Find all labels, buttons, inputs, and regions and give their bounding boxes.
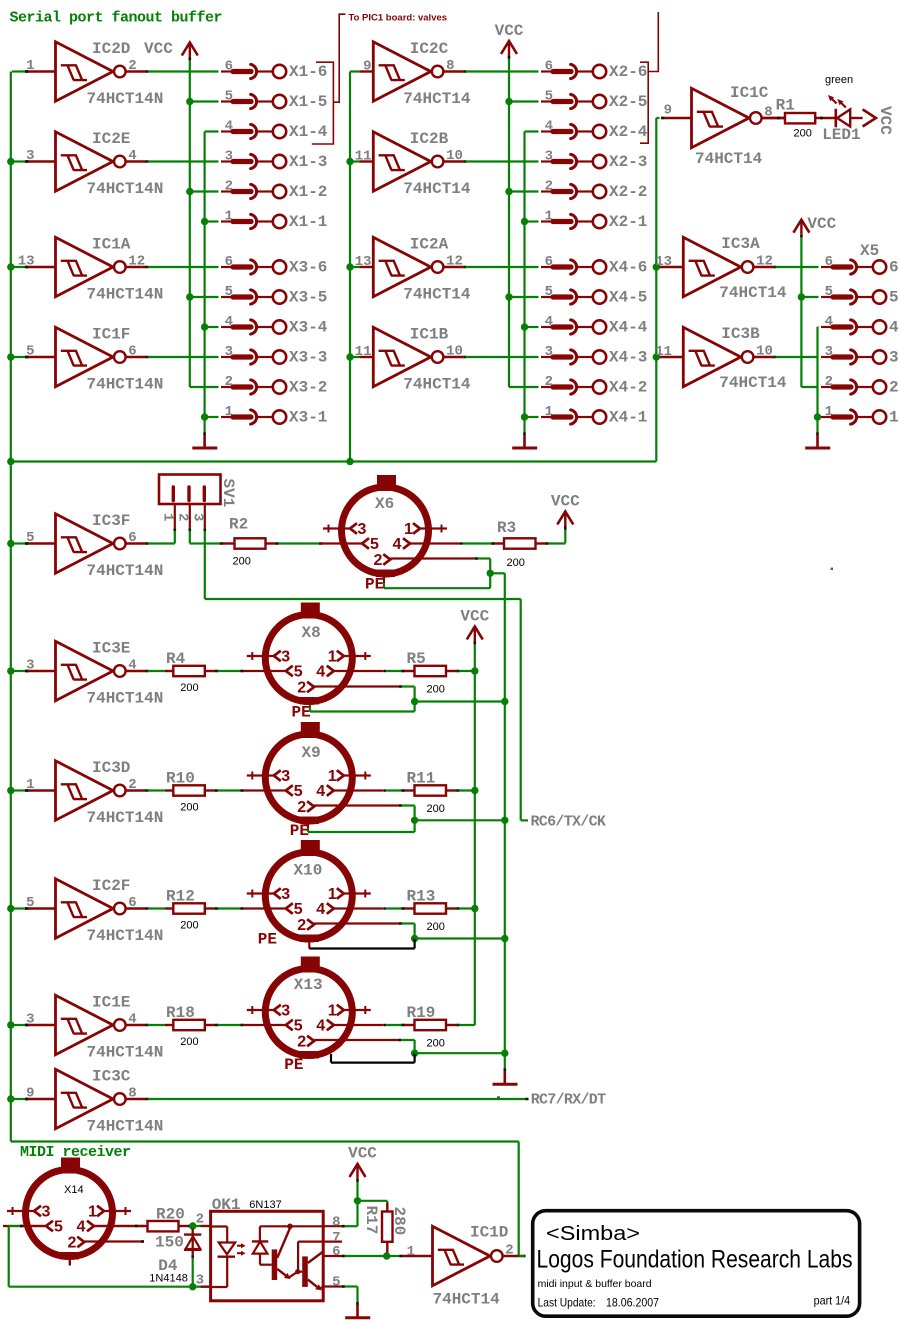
svg-text:VCC: VCC — [495, 22, 524, 40]
svg-text:IC2B: IC2B — [410, 130, 449, 148]
svg-text:3: 3 — [358, 521, 367, 538]
svg-text:VCC: VCC — [807, 215, 836, 233]
svg-text:3: 3 — [825, 344, 833, 360]
svg-text:PE: PE — [284, 1056, 303, 1074]
connector pin 4 — [821, 314, 899, 337]
junction D4 top — [189, 1222, 196, 1229]
pin header SV1 — [159, 475, 237, 532]
DIN connector X10 — [243, 840, 384, 942]
bracket X2 side — [648, 12, 658, 72]
svg-text:IC3B: IC3B — [721, 325, 760, 343]
svg-text:8: 8 — [128, 1086, 136, 1102]
connector pin X3-2 — [221, 374, 327, 397]
wire gnd column 2 — [525, 130, 539, 132]
svg-text:1: 1 — [225, 209, 233, 225]
wire input IC1A — [12, 266, 26, 268]
svg-text:8: 8 — [446, 58, 454, 74]
connector pin X4-3 — [541, 344, 647, 367]
junction X6 PE — [487, 570, 494, 577]
svg-text:74HCT14N: 74HCT14N — [87, 376, 164, 394]
DIN connector X13 — [243, 957, 384, 1059]
inverter IC1D 74HCT14 gate — [407, 1224, 526, 1309]
junction PE rail X8 — [501, 698, 508, 705]
svg-text:IC1A: IC1A — [92, 236, 131, 254]
svg-text:IC1B: IC1B — [410, 326, 449, 344]
title block frame — [533, 1211, 860, 1317]
svg-text:1: 1 — [545, 404, 553, 420]
wire input IC3E — [12, 670, 26, 672]
bracket to note (X1 side) — [333, 14, 345, 102]
svg-text:5: 5 — [294, 1018, 303, 1035]
svg-text:X3-4: X3-4 — [289, 319, 328, 337]
svg-text:X1-3: X1-3 — [289, 153, 327, 171]
wire R11 to VCC rail — [446, 789, 456, 791]
svg-text:IC2F: IC2F — [92, 877, 130, 895]
svg-text:6: 6 — [225, 59, 233, 75]
svg-text:2: 2 — [825, 374, 833, 390]
wire X13 PE to rail — [415, 1052, 505, 1054]
wire IC1C out to R1 — [762, 117, 786, 119]
svg-text:Last Update:: Last Update: — [538, 1296, 596, 1310]
svg-text:74HCT14: 74HCT14 — [403, 286, 471, 304]
ground column 2 — [523, 432, 526, 435]
svg-text:<Simba>: <Simba> — [546, 1223, 640, 1245]
resistor R1 — [785, 113, 815, 123]
junction bus y=267 — [7, 263, 14, 270]
wire X13 pin2 — [314, 1039, 398, 1041]
VCC symbol mid rail — [467, 627, 483, 640]
svg-text:R11: R11 — [407, 770, 436, 788]
wire X14 pin2 stub (nc) — [84, 1240, 143, 1242]
wire input IC2F — [12, 907, 26, 909]
svg-text:X4-6: X4-6 — [609, 259, 647, 277]
svg-text:X3-2: X3-2 — [289, 379, 327, 397]
wire IC3D out to R10 — [148, 789, 166, 791]
wire X9 PE to rail — [415, 819, 505, 821]
svg-text:5: 5 — [545, 89, 553, 105]
svg-text:X3-1: X3-1 — [289, 409, 327, 427]
wire input IC3F — [12, 542, 26, 544]
wire input IC3C — [12, 1098, 26, 1100]
svg-text:IC3E: IC3E — [92, 640, 130, 658]
wire R4 to DIN pin5 — [205, 670, 215, 672]
VCC symbol column 1 — [182, 43, 198, 56]
svg-text:Serial port fanout buffer: Serial port fanout buffer — [10, 10, 223, 27]
svg-text:4: 4 — [225, 314, 233, 330]
svg-text:X3-6: X3-6 — [289, 259, 327, 277]
OK1 pin 6 — [323, 1255, 342, 1257]
svg-text:74HCT14: 74HCT14 — [403, 376, 471, 394]
svg-text:1: 1 — [545, 209, 553, 225]
wire SV1 net riser RC6 — [520, 599, 522, 820]
svg-text:200: 200 — [794, 128, 812, 140]
ground X5 — [816, 432, 819, 435]
connector pin X1-4 — [221, 119, 328, 142]
svg-text:X6: X6 — [375, 495, 394, 513]
wire output IC1F — [148, 356, 219, 358]
svg-text:4: 4 — [889, 319, 899, 337]
wire input IC2C — [350, 70, 359, 72]
connector pin X3-5 — [221, 284, 327, 307]
svg-text:5: 5 — [294, 901, 303, 918]
svg-text:1: 1 — [328, 649, 337, 666]
svg-text:6: 6 — [889, 259, 899, 277]
svg-text:R17: R17 — [362, 1206, 380, 1235]
svg-text:2: 2 — [297, 917, 306, 934]
svg-text:IC3F: IC3F — [92, 512, 130, 530]
connector pin X2-2 — [541, 179, 647, 202]
svg-text:3: 3 — [42, 1204, 51, 1221]
svg-text:74HCT14N: 74HCT14N — [87, 809, 164, 827]
resistor R18 — [166, 1004, 205, 1048]
svg-text:200: 200 — [180, 802, 198, 814]
wire input IC2E — [12, 160, 26, 162]
svg-text:3: 3 — [889, 349, 899, 367]
svg-text:2: 2 — [545, 179, 553, 195]
inverter IC2E 74HCT14 gate — [25, 130, 163, 198]
svg-text:VCC: VCC — [144, 40, 173, 58]
svg-text:To PIC1 board: valves: To PIC1 board: valves — [349, 13, 448, 24]
junction X9 PE — [411, 817, 418, 824]
inverter IC1D input — [402, 1255, 432, 1257]
svg-text:1: 1 — [26, 777, 34, 793]
svg-text:200: 200 — [180, 682, 198, 694]
svg-text:RC7/RX/DT: RC7/RX/DT — [531, 1092, 606, 1109]
inverter IC2A 74HCT14 gate — [355, 236, 471, 304]
X14 PE stub — [69, 1259, 71, 1266]
junction bus y=1099 — [7, 1095, 14, 1102]
wire VCC X5 — [800, 237, 802, 387]
inverter IC3C 74HCT14 gate — [25, 1068, 163, 1136]
svg-text:2: 2 — [297, 799, 306, 816]
svg-text:IC1D: IC1D — [470, 1224, 508, 1242]
junction PE rail X13 — [501, 1050, 508, 1057]
svg-text:X3-3: X3-3 — [289, 349, 327, 367]
svg-text:IC1C: IC1C — [730, 84, 769, 102]
VCC arrow right (rotated) — [863, 109, 876, 126]
wire R10 to DIN pin5 — [205, 789, 215, 791]
svg-text:4: 4 — [825, 314, 833, 330]
junction R17 bottom — [383, 1252, 390, 1259]
wire to R17 top — [358, 1200, 388, 1202]
VCC symbol at R3 — [557, 512, 573, 525]
svg-text:R5: R5 — [407, 650, 426, 668]
svg-text:4: 4 — [316, 664, 325, 681]
svg-text:18.06.2007: 18.06.2007 — [606, 1296, 659, 1310]
svg-text:6: 6 — [225, 254, 233, 270]
junction bus y=543.5 — [7, 540, 14, 547]
wire output IC2B — [465, 160, 538, 162]
wire VCC mid rail — [474, 644, 476, 1025]
wire X10 pin2 — [314, 922, 399, 924]
svg-text:74HCT14: 74HCT14 — [403, 180, 471, 198]
svg-text:200: 200 — [233, 556, 251, 568]
svg-text:200: 200 — [507, 557, 525, 569]
svg-text:4: 4 — [545, 314, 553, 330]
wire IC3C output to RC7 — [148, 1098, 526, 1100]
wire SV1 pin2 down — [189, 531, 191, 544]
wire input bus bottom horizontal — [11, 1140, 519, 1142]
junction X10 PE — [411, 935, 418, 942]
connector pin X4-6 — [541, 254, 647, 277]
junction VCC rail — [471, 905, 478, 912]
resistor R19 — [407, 1004, 447, 1050]
svg-text:200: 200 — [180, 1036, 198, 1048]
svg-text:5: 5 — [26, 895, 34, 911]
wire bus riser to IC1D output — [518, 1142, 520, 1257]
svg-text:74HCT14: 74HCT14 — [719, 284, 787, 302]
svg-text:2: 2 — [174, 513, 190, 521]
inverter IC1C 74HCT14 gate — [661, 84, 785, 168]
svg-text:X1-5: X1-5 — [289, 93, 327, 111]
svg-text:3: 3 — [281, 886, 290, 903]
svg-text:4: 4 — [316, 901, 325, 918]
optocoupler OK1 6N137 — [211, 1196, 324, 1301]
connector pin 3 — [821, 344, 899, 367]
resistor R4 — [166, 650, 205, 694]
junction VCC rail — [471, 787, 478, 794]
svg-text:X2-4: X2-4 — [609, 123, 648, 141]
svg-text:1: 1 — [407, 1244, 415, 1260]
svg-text:R10: R10 — [166, 770, 195, 788]
wire IC1D output — [519, 1255, 525, 1257]
inverter IC1A 74HCT14 gate — [18, 236, 164, 304]
svg-text:R3: R3 — [497, 519, 516, 537]
inverter IC2B 74HCT14 gate — [355, 130, 471, 198]
connector pin X1-2 — [221, 179, 327, 202]
wire SV1 pin1 down — [174, 531, 176, 544]
svg-text:1: 1 — [404, 521, 413, 538]
svg-text:4: 4 — [77, 1219, 86, 1236]
svg-text:2: 2 — [225, 374, 233, 390]
svg-text:IC2E: IC2E — [92, 130, 130, 148]
wire IC3E out to R4 — [148, 670, 166, 672]
svg-text:4: 4 — [393, 536, 402, 553]
connector pin X4-1 — [541, 404, 647, 427]
svg-text:4: 4 — [316, 1018, 325, 1035]
wire X8 PE to rail — [415, 700, 505, 702]
svg-text:10: 10 — [756, 344, 773, 360]
wire X10 PE loop (black) — [308, 938, 310, 949]
svg-text:R20: R20 — [156, 1205, 185, 1223]
wire VCC MIDI — [356, 1182, 358, 1227]
svg-text:X8: X8 — [302, 624, 321, 642]
resistor R20 — [148, 1221, 179, 1231]
inverter IC3E 74HCT14 gate — [25, 640, 163, 708]
svg-text:3: 3 — [26, 1012, 34, 1028]
inverter IC2F 74HCT14 gate — [25, 877, 163, 945]
svg-text:4: 4 — [225, 119, 233, 135]
svg-text:VCC: VCC — [551, 493, 580, 511]
svg-text:1: 1 — [825, 404, 833, 420]
DIN connector X8 — [243, 603, 384, 705]
svg-text:OK1: OK1 — [212, 1196, 241, 1214]
VCC symbol column 2 — [501, 41, 517, 54]
svg-text:R1: R1 — [776, 97, 795, 115]
resistor R12 — [166, 888, 205, 932]
wire output IC3B — [775, 356, 818, 358]
svg-text:R2: R2 — [229, 516, 248, 534]
LED LED1 — [815, 74, 862, 144]
wire output IC2C — [465, 70, 538, 72]
wire IC1E out to R18 — [148, 1024, 166, 1026]
connector pin X3-6 — [221, 254, 327, 277]
svg-text:5: 5 — [54, 1219, 63, 1236]
junction bus y=161.5 — [7, 158, 14, 165]
ground PE rail — [504, 1053, 506, 1068]
wire R13 to VCC rail — [446, 907, 456, 909]
svg-text:2: 2 — [68, 1234, 77, 1251]
svg-text:6: 6 — [332, 1244, 340, 1260]
svg-text:X10: X10 — [294, 862, 323, 880]
VCC symbol X5 — [793, 220, 809, 233]
svg-text:12: 12 — [446, 254, 463, 270]
svg-text:6: 6 — [128, 895, 136, 911]
connector pin 1 — [821, 404, 899, 427]
svg-text:X2-2: X2-2 — [609, 183, 647, 201]
svg-text:IC3A: IC3A — [721, 235, 760, 253]
connector pin X3-3 — [221, 344, 327, 367]
wire DIN pin4 to R13 — [384, 907, 387, 909]
svg-text:2: 2 — [196, 1212, 204, 1228]
wire X9 pin2 — [314, 804, 399, 806]
svg-text:X4-4: X4-4 — [609, 319, 648, 337]
junction bus y=357 — [7, 353, 14, 360]
svg-text:VCC: VCC — [460, 608, 489, 626]
svg-text:X5: X5 — [860, 242, 879, 260]
svg-text:5: 5 — [332, 1275, 340, 1291]
svg-text:PE: PE — [258, 931, 277, 949]
junction X8 PE — [411, 698, 418, 705]
svg-text:6: 6 — [128, 530, 136, 546]
junction bus y=908.5 — [7, 905, 14, 912]
svg-text:X13: X13 — [294, 976, 323, 994]
svg-text:200: 200 — [427, 1038, 445, 1050]
resistor R17 (vertical) — [362, 1203, 408, 1253]
svg-text:5: 5 — [26, 530, 34, 546]
svg-text:5: 5 — [225, 284, 233, 300]
VCC symbol MIDI — [350, 1164, 366, 1177]
wire input IC3D — [12, 789, 26, 791]
wire input IC1B — [350, 356, 359, 358]
wire X6 pin2 — [390, 557, 475, 559]
junction VCC/R17 — [354, 1197, 361, 1204]
svg-text:2: 2 — [545, 374, 553, 390]
svg-text:3: 3 — [189, 513, 205, 521]
svg-text:PE: PE — [365, 576, 384, 594]
wire IC2F out to R12 — [148, 907, 166, 909]
svg-text:74HCT14N: 74HCT14N — [87, 90, 164, 108]
wire R3 to VCC — [536, 542, 546, 544]
svg-text:X14: X14 — [64, 1184, 84, 1196]
wire OK1 pin5 to ground — [356, 1287, 358, 1303]
svg-text:R4: R4 — [166, 650, 186, 668]
svg-text:2: 2 — [297, 1033, 306, 1050]
svg-text:part 1/4: part 1/4 — [814, 1294, 851, 1308]
svg-text:1: 1 — [328, 1003, 337, 1020]
wire VCC column 1 — [189, 60, 191, 387]
resistor R2 — [205, 542, 220, 544]
wire net to second column y=461.5 — [11, 460, 657, 462]
inverter IC1E 74HCT14 gate — [25, 994, 163, 1062]
connector pin X2-3 — [541, 149, 647, 172]
svg-text:3: 3 — [545, 149, 553, 165]
svg-text:X1-6: X1-6 — [289, 63, 327, 81]
svg-text:3: 3 — [225, 344, 233, 360]
wire DIN pin4 to R5 — [384, 670, 387, 672]
inverter IC1B 74HCT14 gate — [355, 326, 471, 394]
wire input IC2B — [350, 160, 359, 162]
svg-text:IC2C: IC2C — [410, 40, 449, 58]
svg-text:6: 6 — [825, 254, 833, 270]
svg-text:1: 1 — [159, 513, 175, 521]
svg-text:74HCT14: 74HCT14 — [433, 1290, 501, 1308]
wire R19 to VCC rail — [446, 1024, 456, 1026]
svg-text:IC1E: IC1E — [92, 994, 130, 1012]
connector pin X1-5 — [221, 89, 327, 112]
svg-text:74HCT14N: 74HCT14N — [87, 1044, 164, 1062]
wire VCC col1 to X3-2 — [190, 386, 219, 388]
wire R5 to VCC rail — [446, 670, 456, 672]
svg-text:RC6/TX/CK: RC6/TX/CK — [531, 814, 606, 831]
junction (350,461.5) — [346, 458, 353, 465]
svg-text:4: 4 — [545, 119, 553, 135]
svg-text:5: 5 — [26, 344, 34, 360]
svg-text:R19: R19 — [407, 1004, 436, 1022]
wire VCC column 2 — [508, 59, 510, 388]
connector pin X4-4 — [541, 314, 648, 337]
connector pin X2-6 — [541, 59, 647, 82]
junction PE rail X9 — [501, 817, 508, 824]
inverter IC2C 74HCT14 gate — [363, 40, 471, 108]
svg-text:X3-5: X3-5 — [289, 289, 327, 307]
svg-text:2: 2 — [297, 679, 306, 696]
svg-text:3: 3 — [281, 768, 290, 785]
svg-text:green: green — [825, 74, 853, 86]
svg-text:PE: PE — [292, 704, 311, 722]
resistor R5 — [407, 650, 447, 696]
OK1 pin 8 — [323, 1225, 342, 1227]
svg-text:200: 200 — [180, 920, 198, 932]
connector pin X1-6 — [221, 59, 327, 82]
svg-text:1: 1 — [88, 1204, 97, 1221]
junction X13 PE — [411, 1050, 418, 1057]
resistor R13 — [407, 888, 447, 934]
wire IC1C input drop — [655, 118, 657, 462]
resistor R11 — [407, 770, 447, 816]
junction bus y=671 — [7, 667, 14, 674]
DIN connector X6 — [319, 475, 460, 577]
connector pin X3-1 — [221, 404, 327, 427]
wire DIN pin4 to R11 — [384, 789, 387, 791]
svg-text:2: 2 — [505, 1243, 513, 1259]
wire output IC3A — [775, 266, 818, 268]
svg-text:5: 5 — [370, 536, 379, 553]
resistor R3 — [504, 538, 536, 548]
svg-text:X1-1: X1-1 — [289, 213, 327, 231]
wire IC3F out to SV1 pin1 — [148, 542, 175, 544]
svg-text:280: 280 — [390, 1207, 408, 1236]
wire PE rail vertical — [504, 573, 506, 1053]
svg-text:IC3D: IC3D — [92, 759, 130, 777]
svg-text:X4-3: X4-3 — [609, 349, 647, 367]
svg-text:X2-5: X2-5 — [609, 93, 647, 111]
svg-text:3: 3 — [26, 658, 34, 674]
svg-text:2: 2 — [225, 179, 233, 195]
svg-text:3: 3 — [281, 1003, 290, 1020]
svg-text:74HCT14: 74HCT14 — [695, 150, 763, 168]
svg-text:200: 200 — [427, 803, 445, 815]
